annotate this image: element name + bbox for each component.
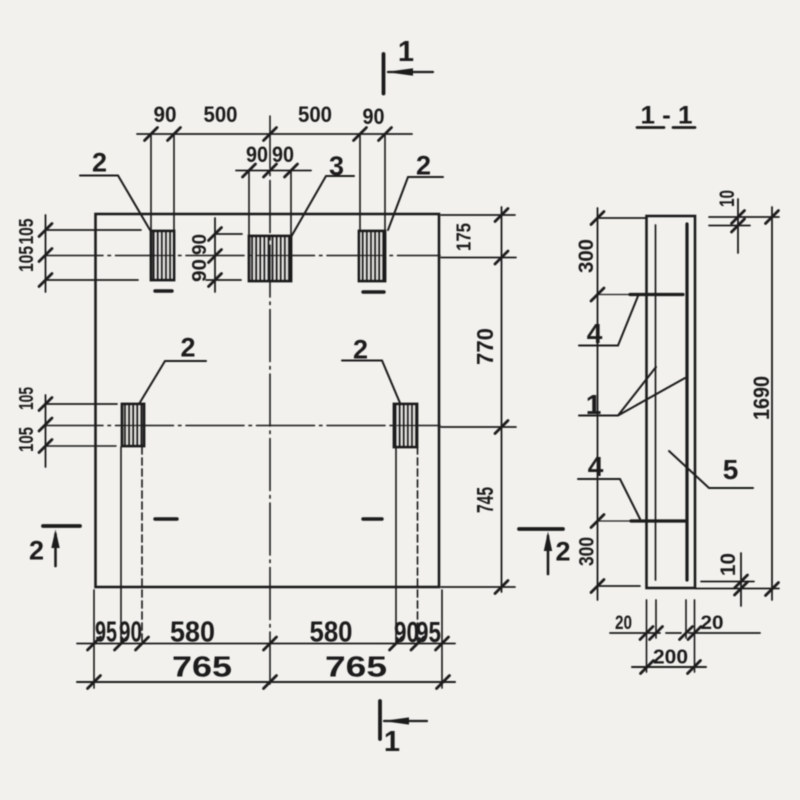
bottom first ticks	[88, 637, 449, 650]
mark dash lower-right	[363, 517, 382, 520]
section dim 20-20 line	[610, 632, 760, 634]
svg-text:580: 580	[170, 617, 215, 649]
svg-text:3: 3	[329, 151, 344, 181]
rebar right vertical	[685, 224, 688, 580]
leader label 2 mid-right	[342, 361, 400, 404]
svg-text:90: 90	[119, 617, 142, 649]
svg-text:1: 1	[586, 389, 602, 420]
svg-text:580: 580	[310, 617, 353, 649]
leader label 3 top-center	[291, 176, 354, 237]
svg-text:4: 4	[588, 451, 604, 482]
svg-text:300: 300	[576, 537, 599, 566]
dim 90-90 vertical at center insert	[206, 218, 242, 292]
svg-text:5: 5	[723, 454, 739, 485]
section left dimension line	[598, 208, 647, 600]
section mark 2 left	[43, 526, 80, 566]
insert mid-right	[394, 404, 417, 447]
mark dash lower-left	[155, 517, 177, 520]
svg-text:1: 1	[384, 726, 400, 758]
svg-text:2: 2	[180, 333, 195, 363]
svg-text:745: 745	[472, 487, 498, 513]
section title underline	[637, 126, 695, 129]
section mark 2 right	[519, 529, 563, 574]
svg-text:2: 2	[555, 537, 570, 567]
svg-text:2: 2	[29, 536, 44, 566]
left dimension line middle group	[46, 395, 118, 467]
svg-text:2: 2	[92, 148, 107, 178]
svg-text:2: 2	[416, 151, 431, 181]
svg-text:300: 300	[575, 239, 598, 273]
svg-text:90: 90	[189, 234, 211, 255]
svg-text:20: 20	[615, 613, 632, 634]
svg-text:10: 10	[716, 190, 739, 207]
svg-text:105: 105	[16, 219, 38, 245]
svg-text:90: 90	[246, 142, 268, 167]
svg-text:105: 105	[16, 387, 38, 410]
leader label 2 mid-left	[139, 361, 206, 404]
leader label 2 top-left	[80, 176, 150, 231]
horizontal axis mid insert row	[45, 425, 440, 427]
svg-text:20: 20	[701, 613, 724, 634]
svg-text:10: 10	[717, 553, 740, 576]
right dim ticks	[495, 209, 508, 594]
section view outline	[647, 216, 696, 588]
svg-text:95: 95	[95, 617, 117, 649]
svg-text:765: 765	[325, 652, 387, 684]
section mark 1 top	[384, 54, 434, 94]
section dim 10 bottom	[696, 553, 779, 606]
insert top-right	[359, 231, 385, 281]
svg-text:95: 95	[416, 617, 441, 649]
left middle ticks	[39, 398, 52, 453]
svg-text:500: 500	[204, 102, 238, 127]
section bottom extension lines	[647, 600, 695, 672]
leader label 1 bars	[579, 367, 685, 416]
dim 90-90 line center	[236, 171, 311, 236]
leader label 4 bottom	[578, 479, 640, 519]
insert top-left	[151, 231, 174, 280]
svg-text:90: 90	[272, 142, 294, 167]
leader label 5	[669, 451, 753, 488]
svg-text:1 - 1: 1 - 1	[641, 102, 693, 130]
insert mid-left	[122, 404, 144, 446]
svg-text:90: 90	[154, 102, 177, 127]
texts	[154, 102, 385, 167]
svg-text:105: 105	[16, 246, 38, 272]
svg-text:90: 90	[363, 104, 385, 129]
svg-text:90: 90	[189, 259, 211, 282]
section dim 200 line	[632, 666, 706, 668]
svg-text:1: 1	[398, 36, 414, 68]
svg-text:765: 765	[172, 652, 232, 684]
svg-text:2: 2	[353, 335, 368, 365]
leader label 2 top-right	[388, 177, 443, 230]
svg-text:4: 4	[587, 318, 603, 349]
mark dash below top-left insert	[155, 289, 172, 292]
transverse bar bottom	[598, 520, 685, 522]
mark dash below top-right insert	[363, 290, 384, 293]
svg-text:175: 175	[454, 223, 476, 251]
panel outline	[96, 214, 440, 587]
rebar left vertical	[655, 225, 657, 580]
dim 90-90 vertical ticks	[209, 228, 222, 287]
svg-text:770: 770	[472, 328, 498, 365]
svg-text:500: 500	[298, 102, 332, 127]
section dim 10 top	[709, 199, 779, 253]
top dimension line	[137, 134, 412, 230]
svg-text:1690: 1690	[749, 376, 774, 420]
vertical center axis	[269, 116, 271, 688]
section mark 1 bottom	[380, 701, 427, 739]
insert top-center	[249, 236, 291, 281]
svg-text:105: 105	[16, 427, 38, 452]
bottom dimension line first	[77, 447, 455, 688]
section left ticks	[591, 212, 604, 593]
section dim 1690 line	[771, 207, 773, 600]
transverse bar top	[598, 294, 683, 296]
leader label 4 top	[579, 296, 638, 346]
bottom second ticks	[88, 676, 450, 689]
right dimension line of plan	[441, 207, 516, 592]
svg-text:200: 200	[653, 647, 688, 669]
bottom dimension line second	[77, 681, 455, 683]
left dimension line upper group	[46, 215, 142, 292]
left upper ticks	[39, 224, 52, 287]
horizontal axis top insert row	[45, 255, 440, 257]
top dimension ticks	[145, 128, 392, 141]
dim 90-90 ticks	[243, 164, 298, 177]
